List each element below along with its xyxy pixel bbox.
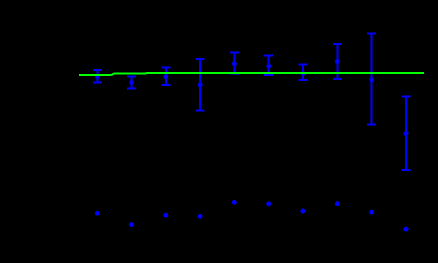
lower point 10 [404, 227, 409, 232]
error bar point 7 [299, 65, 308, 81]
lower point 4 [198, 214, 203, 219]
fit line [79, 73, 424, 75]
lower point 8 [335, 201, 340, 206]
error bar point 1 [93, 70, 102, 82]
error bar point 4 [196, 59, 205, 111]
lower point 6 [266, 201, 271, 206]
lower point 9 [369, 210, 374, 215]
error bar point 2 [127, 77, 136, 89]
lower point 5 [232, 200, 237, 205]
error bar point 5 [230, 53, 239, 74]
lower point 7 [301, 209, 306, 214]
error bar point 9 [367, 34, 376, 125]
error bar point 10 [402, 97, 411, 171]
lower point 1 [95, 211, 100, 216]
error bar point 3 [161, 68, 170, 86]
error bar point 6 [264, 56, 273, 76]
lower point 2 [129, 222, 134, 227]
error bar point 8 [333, 44, 342, 79]
lower point 3 [163, 213, 168, 218]
